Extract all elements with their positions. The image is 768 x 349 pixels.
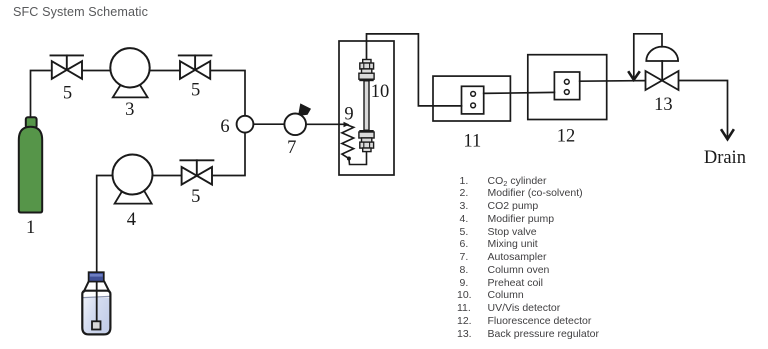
wire autosampler to column oven [306,123,346,125]
stop valve 5 (modifier line) [180,160,213,184]
bottle 2 (modifier co-solvent) [82,272,110,334]
svg-text:9: 9 [344,105,353,125]
column 10 [359,60,374,152]
svg-text:13: 13 [654,95,673,115]
legend list [457,175,599,341]
svg-text:6: 6 [220,117,229,137]
feedback line of back pressure regulator [634,34,662,77]
wire valve to pump 4 [154,175,181,177]
cylinder 1 [19,117,42,212]
svg-text:1: 1 [26,218,35,238]
wire detector 11 to detector 12 [484,92,555,93]
svg-text:7: 7 [287,138,296,158]
wire column to detector 11 [367,34,462,106]
pump 3 (CO2 pump) [110,48,149,97]
coil inlet arrow [344,122,350,128]
svg-text:12: 12 [557,126,576,146]
fluorescence detector 12 [528,55,607,120]
svg-text:10: 10 [371,82,390,102]
wire node 6 down to modifier line [213,132,245,175]
wire detector 12 to regulator 13 [580,80,646,83]
autosampler 7 [284,103,311,135]
svg-text:5: 5 [63,84,72,104]
stop valve 5 (after pump 3) [179,55,212,78]
stop valve 5 (CO2 line) [51,55,84,78]
title [13,5,148,19]
svg-text:11: 11 [463,131,481,151]
wire valve to pump 3 [82,70,111,72]
feedback arrowhead [628,71,640,80]
UV/Vis detector 11 [433,76,510,121]
wire cylinder to valve [31,71,51,118]
svg-text:4: 4 [127,210,136,230]
pump 4 (modifier pump) [113,155,153,204]
preheat coil 9 [342,125,367,165]
mixing unit 6 [237,116,254,133]
coil junction dot [347,157,351,161]
svg-text:3: 3 [125,100,134,120]
wire node 6 to autosampler [253,123,284,125]
wire pump 4 to bottle [97,176,114,275]
back pressure regulator 13 [646,47,679,90]
svg-text:Drain: Drain [704,148,746,168]
svg-text:5: 5 [191,81,200,101]
wire regulator 13 to drain [679,81,728,139]
drain arrowhead [721,129,734,139]
wire pump 3 to valve [150,70,179,72]
column oven 8 box [339,41,394,175]
svg-text:5: 5 [191,187,200,207]
wire valve to node 6 [211,71,245,117]
